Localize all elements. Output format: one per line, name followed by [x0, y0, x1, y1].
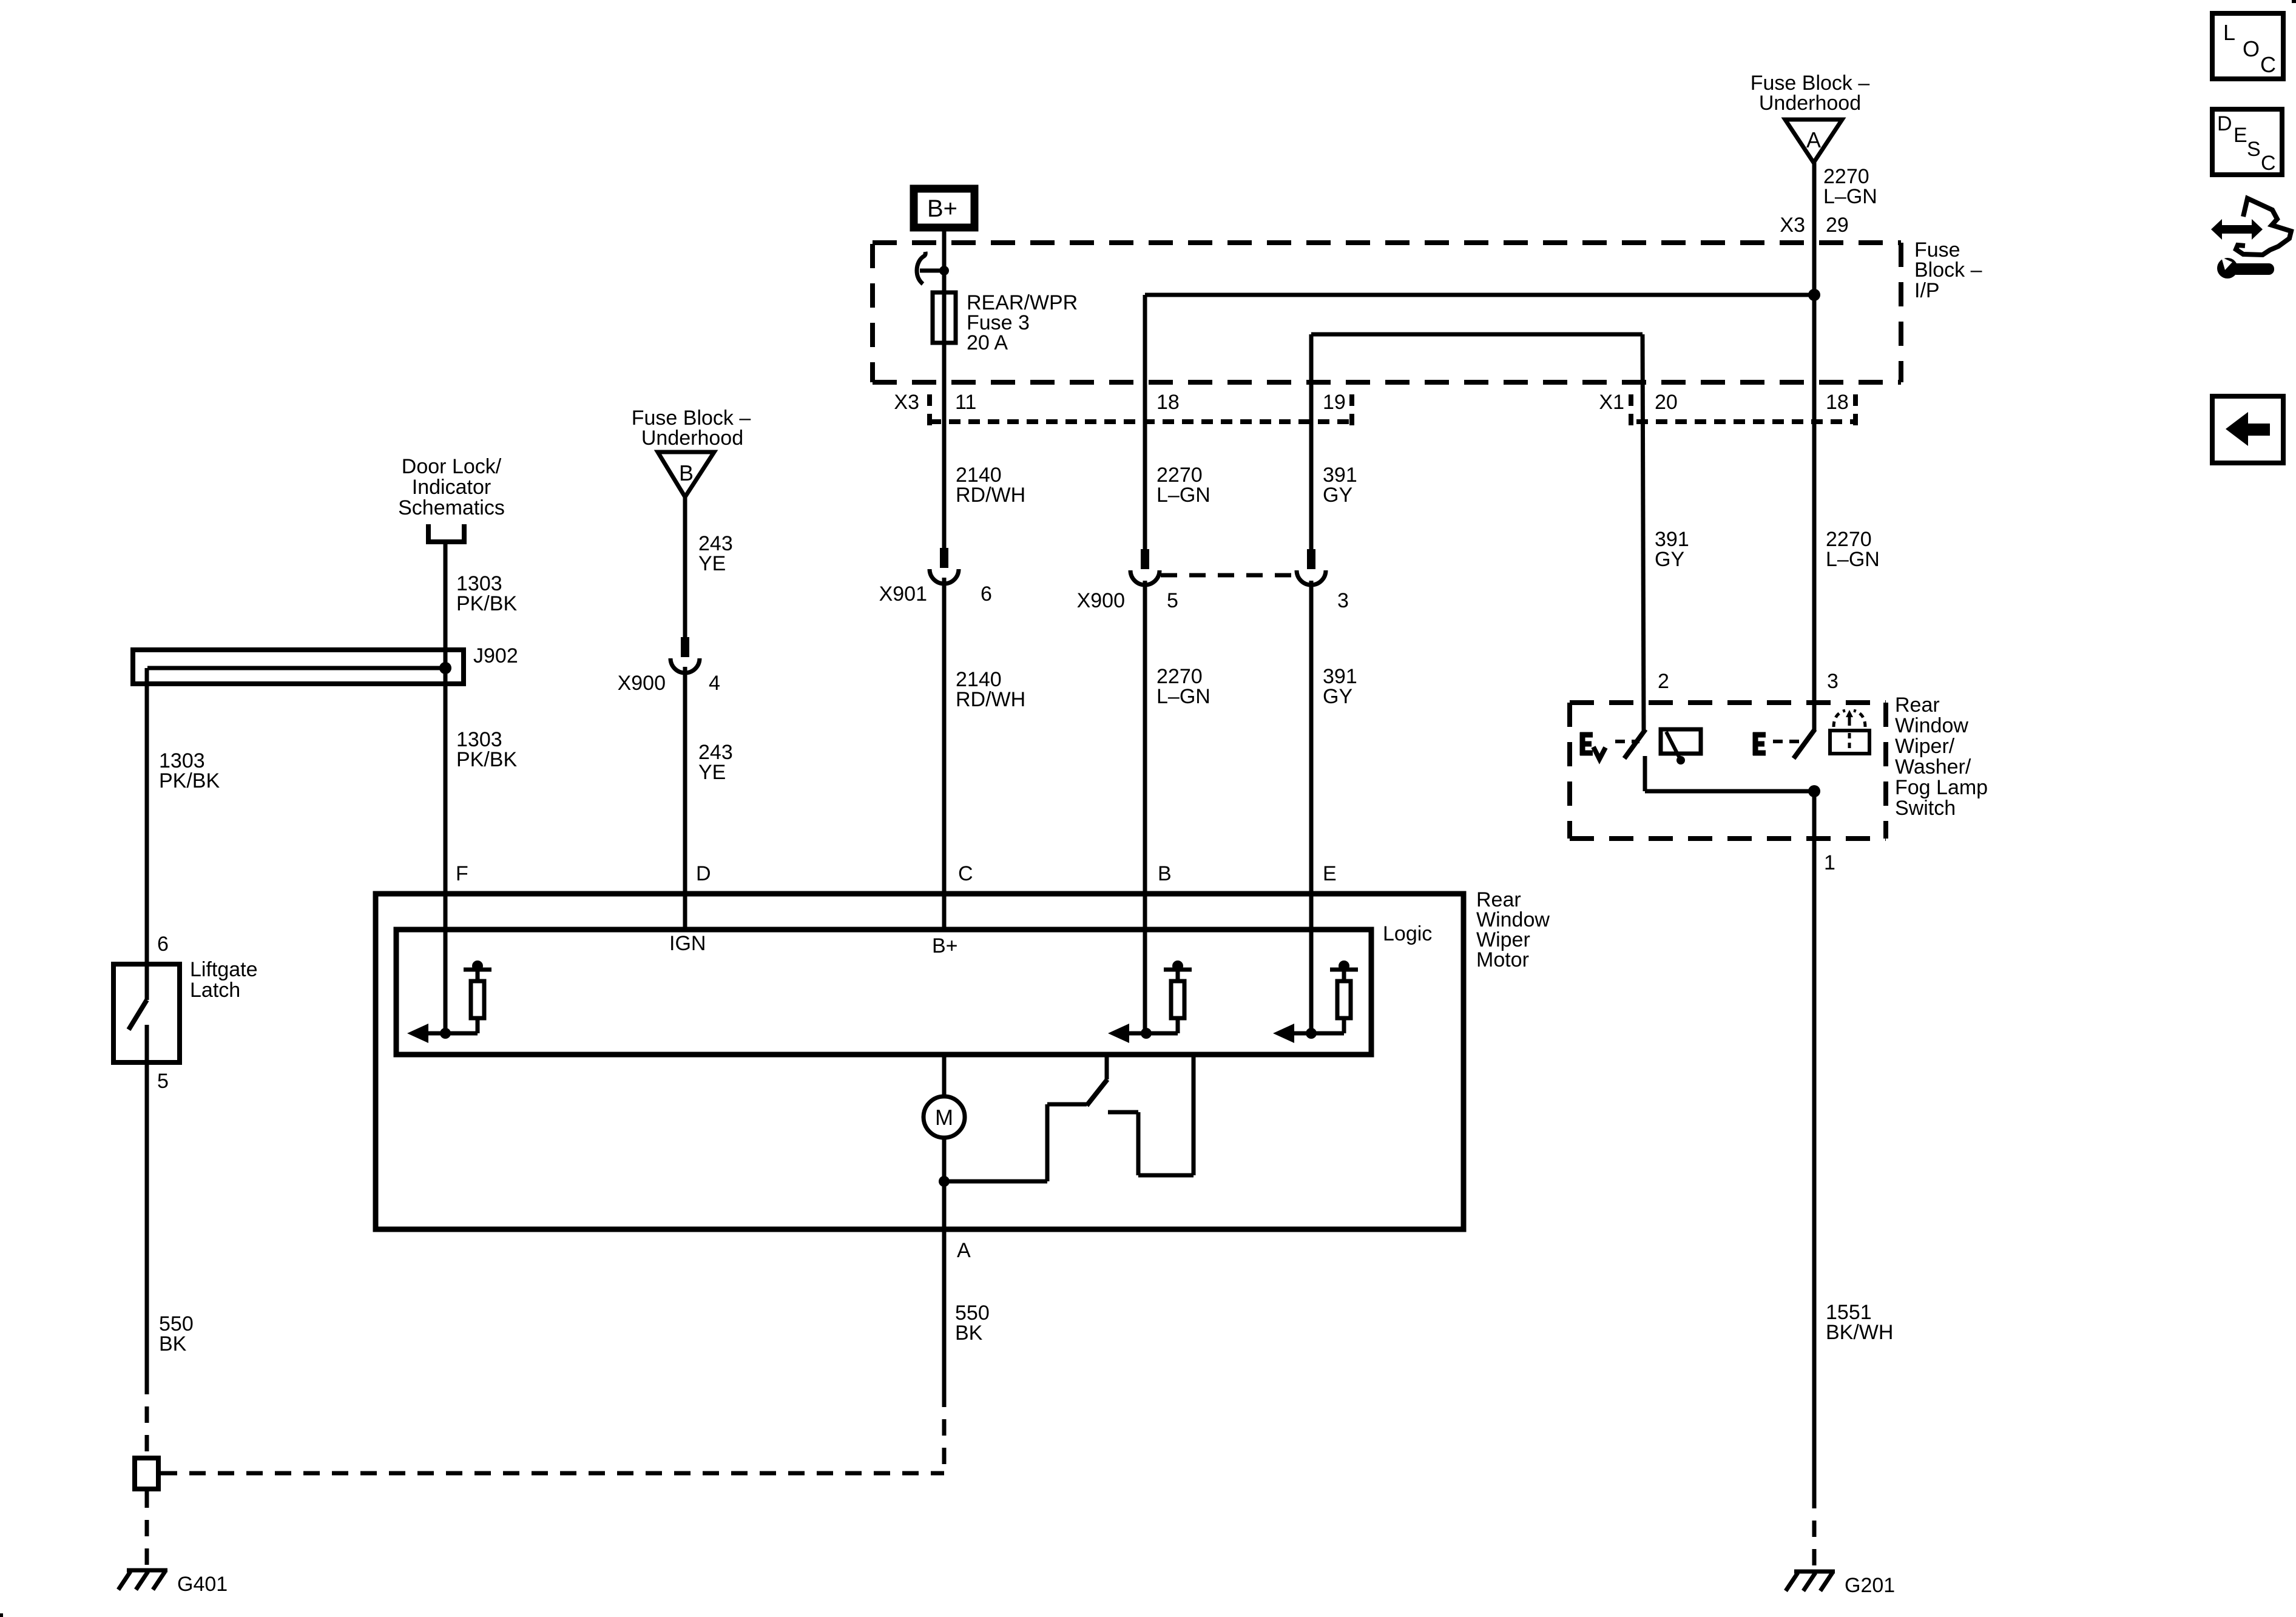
back arrow icon box [2212, 396, 2283, 463]
fuse value label REAR/WPR Fuse 3 20 A [967, 291, 1078, 354]
park switch blade [1087, 1057, 1107, 1106]
dashed wire to ground G401 [145, 1491, 149, 1569]
wire from wiper switch to node [1645, 789, 1814, 794]
svg-text:RD/WH: RD/WH [956, 484, 1025, 507]
svg-text:A: A [957, 1239, 971, 1262]
wire label 2270 L-GN (switch branch) [1826, 528, 1880, 571]
svg-text:L–GN: L–GN [1156, 484, 1210, 507]
liftgate latch label [190, 958, 258, 1002]
wire 1303 PK/BK from J902 down to motor pin F [444, 668, 448, 1033]
wire 550 BK from latch down [145, 1065, 149, 1378]
wire label 391 GY (lower) [1323, 665, 1357, 708]
wire label 243 YE (lower) [698, 741, 733, 784]
svg-text:E: E [2234, 124, 2247, 147]
fuse block I/P label [1914, 238, 1982, 302]
svg-text:RD/WH: RD/WH [956, 688, 1025, 711]
svg-text:I/P: I/P [1914, 279, 1940, 302]
wire 2270 L-GN from triangle A down through I/P to switch pin 3 [1812, 163, 1817, 731]
rear window wiper motor box [376, 894, 1464, 1229]
dashed splice bus wire [161, 1471, 944, 1476]
svg-text:X901: X901 [879, 582, 927, 606]
service tool icon double arrow [2211, 219, 2263, 240]
service tool icon connector outline [2236, 198, 2291, 255]
svg-text:19: 19 [1323, 391, 1346, 414]
wire label 391 GY (upper) [1323, 464, 1357, 507]
rear window wiper/washer/fog lamp switch dashed box [1570, 703, 1886, 839]
inline connector X900 pin 4 [670, 637, 700, 673]
wire from motor to node A [942, 1138, 947, 1181]
svg-text:Window: Window [1895, 714, 1968, 737]
svg-text:Liftgate: Liftgate [190, 958, 258, 981]
connector row X3 dotted edge [930, 419, 1351, 424]
svg-text:6: 6 [981, 582, 992, 606]
svg-text:6: 6 [157, 933, 169, 956]
svg-text:Switch: Switch [1895, 797, 1956, 820]
inline connector X901 pin 6 [930, 548, 959, 584]
svg-text:1: 1 [1824, 851, 1835, 874]
connector separator ticks [930, 394, 1855, 433]
svg-text:20: 20 [1655, 391, 1678, 414]
resistor on input B with arrow [1108, 960, 1192, 1043]
svg-text:C: C [2261, 152, 2276, 175]
wire label 1303 PK/BK (below J902) [456, 728, 517, 771]
svg-text:3: 3 [1337, 589, 1349, 612]
corner artifact bottom left [0, 1613, 3, 1617]
svg-text:J902: J902 [473, 644, 518, 667]
wire label 2140 RD/WH (upper) [956, 464, 1025, 507]
svg-text:S: S [2247, 138, 2261, 161]
ground G201 [1786, 1571, 1835, 1591]
switch label [1895, 694, 1988, 820]
DESC icon box [2212, 109, 2282, 175]
svg-text:BK/WH: BK/WH [1826, 1321, 1893, 1344]
wire label 2270 L-GN (top) [1823, 165, 1877, 208]
svg-text:2: 2 [1658, 670, 1669, 693]
wiper switch actuator letters Ev [1580, 732, 1606, 759]
washer switch actuator letter E [1753, 732, 1766, 755]
node junction dot on 2270 L-GN [1808, 289, 1820, 301]
svg-text:Wiper/: Wiper/ [1895, 735, 1955, 758]
washer switch blade [1794, 729, 1815, 758]
svg-text:B+: B+ [927, 195, 957, 222]
svg-text:X900: X900 [618, 672, 666, 695]
pin label X1 20 [1599, 391, 1677, 414]
liftgate latch [113, 964, 180, 1065]
node junction dot at motor output [939, 1176, 950, 1187]
wire label 243 YE (upper) [698, 532, 733, 575]
svg-text:C: C [958, 862, 973, 885]
connector row X1 dotted edge [1636, 419, 1854, 424]
svg-text:Latch: Latch [190, 979, 240, 1002]
wire switch pin 1 down [1812, 791, 1817, 1492]
svg-text:Door Lock/: Door Lock/ [402, 455, 502, 478]
inline connector X900 pin 5 [1130, 549, 1160, 585]
wire X3-18 down to X900-5 [1143, 295, 1147, 549]
svg-text:29: 29 [1826, 214, 1849, 237]
ground G401 [118, 1570, 167, 1590]
rear window wiper motor label [1476, 888, 1550, 971]
bus wire inside I/P box from node to X3-18 [1145, 293, 1814, 297]
svg-text:Indicator: Indicator [412, 476, 491, 499]
connector label X901 6 [879, 582, 992, 606]
svg-text:BK: BK [159, 1332, 187, 1355]
splice pack J902 [133, 650, 464, 684]
fuse block underhood label (A) [1751, 72, 1870, 115]
svg-text:Block –: Block – [1914, 258, 1982, 282]
off-page triangle connector B [658, 452, 714, 497]
wire label 2270 L-GN (upper) [1156, 464, 1210, 507]
svg-text:O: O [2243, 36, 2260, 61]
battery feed symbol B+ [914, 189, 974, 228]
splice node square [135, 1458, 158, 1489]
svg-text:X3: X3 [894, 391, 919, 414]
connector label X900 4 [618, 672, 720, 695]
wire 550 BK from motor pin A [942, 1181, 947, 1391]
resistor on input E with arrow [1273, 960, 1358, 1043]
wire from logic B+ output to motor [942, 1057, 947, 1098]
pin label X3 29 [1780, 214, 1848, 237]
svg-text:B: B [1158, 862, 1172, 885]
dashed connector link X900 [1161, 573, 1297, 578]
svg-text:L–GN: L–GN [1823, 185, 1877, 208]
svg-text:Rear: Rear [1895, 694, 1940, 717]
dashed wire to ground G201 [1812, 1492, 1817, 1570]
svg-text:X1: X1 [1599, 391, 1624, 414]
wiper switch blade [1624, 729, 1646, 758]
wire 243 YE down to motor pin D [683, 669, 687, 927]
fuse block I/P dashed box [873, 243, 1901, 382]
fuse block underhood label (B) [632, 407, 751, 450]
park switch open contact path [1108, 1057, 1194, 1175]
svg-text:BK: BK [955, 1322, 983, 1345]
wire 1303 PK/BK from J902 to liftgate latch [145, 668, 149, 1000]
svg-text:B+: B+ [932, 934, 958, 957]
wire label 1303 PK/BK (above J902) [456, 572, 517, 615]
svg-text:PK/BK: PK/BK [159, 769, 220, 792]
svg-text:11: 11 [955, 391, 976, 414]
svg-text:A: A [1806, 127, 1821, 152]
svg-text:YE: YE [698, 552, 726, 575]
wire label 1303 PK/BK (left branch) [159, 749, 220, 792]
washer switch actuator dashes [1773, 740, 1800, 743]
svg-text:Logic: Logic [1383, 922, 1432, 945]
wire B+ feed down to fuse and X3-11 [942, 231, 947, 549]
wire label 2140 RD/WH (lower) [956, 668, 1025, 711]
wire label 550 BK (right) [955, 1301, 990, 1345]
svg-text:18: 18 [1826, 391, 1849, 414]
svg-text:X3: X3 [1780, 214, 1805, 237]
corner artifact top right [2292, 0, 2296, 3]
svg-text:E: E [1323, 862, 1337, 885]
wire label 1551 BK/WH [1826, 1301, 1893, 1344]
svg-text:D: D [696, 862, 711, 885]
washer icon [1830, 710, 1869, 754]
svg-text:20 A: 20 A [967, 331, 1008, 354]
svg-text:IGN: IGN [669, 932, 706, 955]
svg-text:M: M [935, 1105, 953, 1130]
svg-text:5: 5 [157, 1070, 169, 1093]
wire label 391 GY (switch branch) [1655, 528, 1689, 571]
svg-text:G401: G401 [177, 1573, 228, 1596]
svg-text:Fog Lamp: Fog Lamp [1895, 776, 1988, 799]
pin label X3 11 [894, 391, 976, 414]
svg-text:F: F [456, 862, 468, 885]
off-page bracket to door lock schematics [428, 524, 464, 542]
resistor on input F with arrow [407, 960, 491, 1043]
svg-text:Motor: Motor [1476, 948, 1529, 971]
svg-text:Underhood: Underhood [1759, 92, 1861, 115]
dashed wire to splice [145, 1378, 149, 1456]
node junction dot in switch [1808, 785, 1820, 797]
LOC icon box [2212, 13, 2283, 79]
svg-text:18: 18 [1156, 391, 1180, 414]
dashed wire from A to splice bus [942, 1391, 947, 1473]
connector label X900 5 3 [1077, 589, 1349, 612]
svg-text:GY: GY [1323, 685, 1352, 708]
svg-text:GY: GY [1323, 484, 1352, 507]
wiper switch actuator dashes [1615, 740, 1639, 743]
wire 391 GY down to motor pin E [1309, 581, 1314, 1033]
wire 243 YE from triangle B to X900-4 [683, 497, 687, 638]
wire 2140 RD/WH down to motor pin C [942, 579, 947, 927]
svg-text:G201: G201 [1845, 1574, 1895, 1597]
park switch common path [944, 1104, 1087, 1181]
fuse REAR/WPR Fuse 3 20 A [933, 292, 956, 343]
svg-text:Schematics: Schematics [398, 496, 505, 519]
svg-text:PK/BK: PK/BK [456, 748, 517, 771]
svg-text:Washer/: Washer/ [1895, 755, 1971, 778]
svg-text:C: C [2260, 52, 2276, 77]
logic box [396, 930, 1371, 1055]
svg-text:3: 3 [1827, 670, 1838, 693]
wire label 550 BK (left) [159, 1312, 194, 1355]
wire label 2270 L-GN (lower) [1156, 665, 1210, 708]
svg-text:Underhood: Underhood [641, 427, 743, 450]
svg-text:PK/BK: PK/BK [456, 592, 517, 615]
inline connector X900 pin 3 [1297, 549, 1326, 585]
svg-text:5: 5 [1167, 589, 1178, 612]
svg-text:B: B [679, 461, 694, 485]
svg-text:L–GN: L–GN [1826, 548, 1880, 571]
svg-text:L–GN: L–GN [1156, 685, 1210, 708]
wire 2270 L-GN down to motor pin B [1143, 581, 1147, 1033]
wiper switch lower wire [1643, 756, 1647, 791]
bus wire inside I/P box 391 GY from X3-19 to X1-20 [1311, 334, 1644, 731]
svg-text:L: L [2223, 20, 2235, 45]
wiper icon [1661, 729, 1701, 765]
door lock schematics label [398, 455, 505, 519]
svg-text:D: D [2217, 112, 2232, 135]
svg-text:GY: GY [1655, 548, 1684, 571]
svg-text:4: 4 [709, 672, 720, 695]
svg-text:YE: YE [698, 761, 726, 784]
wire 1303 PK/BK from bracket to J902 [444, 542, 448, 668]
motor M [923, 1096, 965, 1138]
fuse clip hook [917, 252, 949, 284]
off-page triangle connector A [1785, 120, 1842, 163]
svg-text:X900: X900 [1077, 589, 1125, 612]
service tool icon wrench [2217, 257, 2274, 279]
